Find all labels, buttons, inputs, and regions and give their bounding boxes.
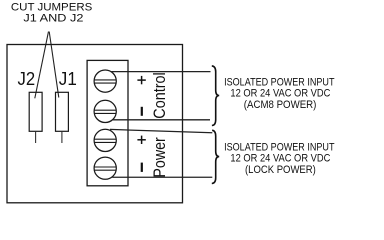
svg-text:J1: J1 bbox=[59, 69, 77, 89]
wire control plus bbox=[111, 71, 211, 73]
svg-text:Control: Control bbox=[151, 72, 169, 118]
svg-text:J2: J2 bbox=[18, 69, 36, 89]
terminal screw 1 bbox=[94, 70, 116, 92]
jumper J2 bottom lead bbox=[35, 131, 37, 143]
svg-text:Power: Power bbox=[151, 137, 169, 178]
leader line to jumper J1 bbox=[49, 32, 59, 98]
svg-text:12 OR 24 VAC OR VDC: 12 OR 24 VAC OR VDC bbox=[230, 88, 330, 100]
terminal screw 2 bbox=[94, 100, 116, 122]
jumper J1 bottom lead bbox=[61, 131, 63, 143]
terminal block outline bbox=[87, 60, 128, 185]
plus sign control bbox=[137, 76, 145, 84]
terminal screw 3 bbox=[94, 129, 116, 151]
brace lock power input bbox=[212, 130, 219, 183]
minus sign power bbox=[141, 163, 143, 172]
svg-text:J1 AND J2: J1 AND J2 bbox=[23, 12, 83, 24]
wire power minus bbox=[112, 176, 212, 178]
minus sign control bbox=[141, 107, 143, 116]
svg-text:(ACM8 POWER): (ACM8 POWER) bbox=[244, 99, 317, 111]
svg-text:(LOCK POWER): (LOCK POWER) bbox=[245, 164, 316, 176]
board outline bbox=[7, 45, 183, 203]
brace control input bbox=[212, 66, 219, 126]
plus sign power bbox=[137, 136, 145, 144]
svg-text:12 OR 24 VAC OR VDC: 12 OR 24 VAC OR VDC bbox=[230, 153, 330, 165]
terminal screw 4 bbox=[94, 157, 116, 179]
jumper J1 body bbox=[56, 92, 69, 131]
leader line to jumper J2 bbox=[35, 32, 49, 99]
wire control minus bbox=[113, 119, 211, 121]
wire power plus bbox=[110, 129, 212, 132]
jumper J2 body bbox=[29, 92, 42, 131]
